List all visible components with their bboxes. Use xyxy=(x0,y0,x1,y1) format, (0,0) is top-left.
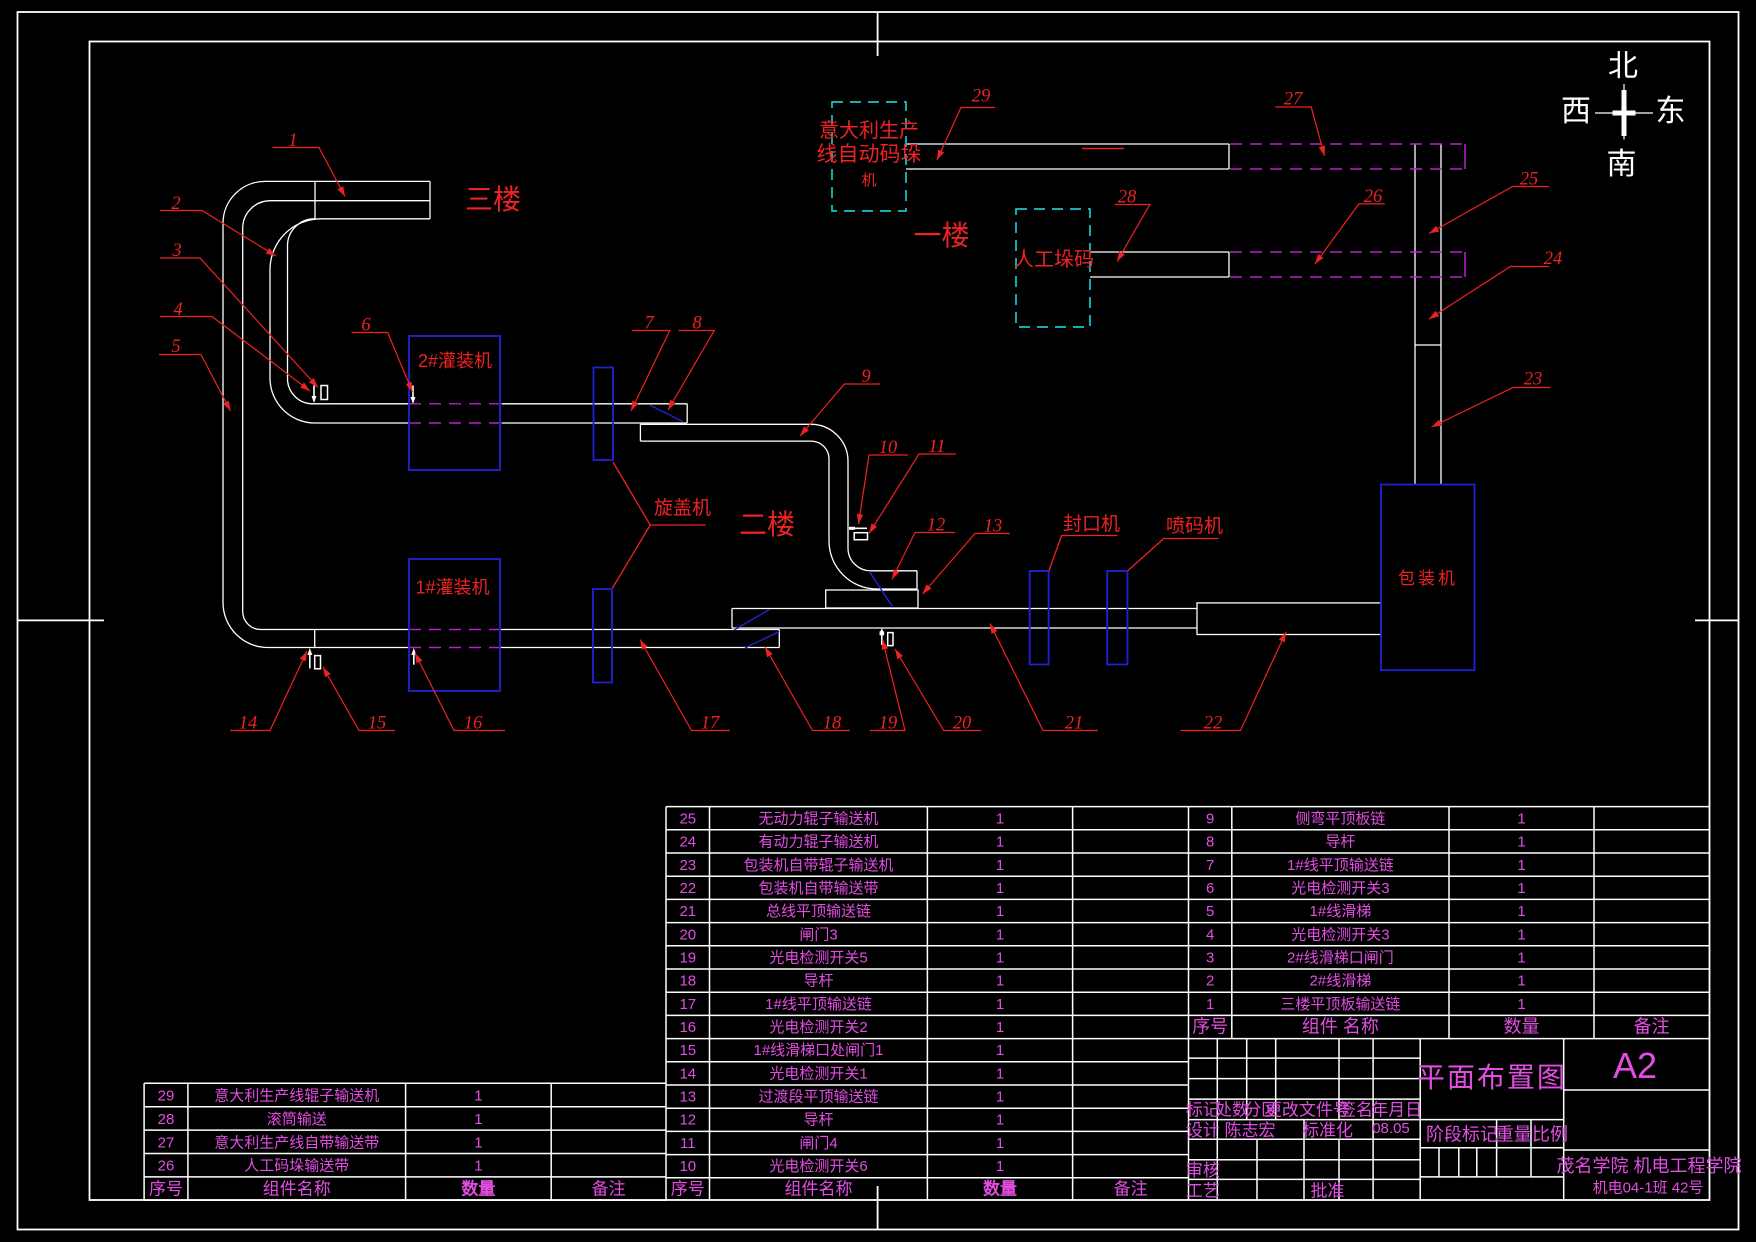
svg-text:11: 11 xyxy=(928,437,945,457)
svg-text:15: 15 xyxy=(368,714,387,734)
svg-text:18: 18 xyxy=(823,714,842,734)
svg-text:1: 1 xyxy=(474,1158,482,1175)
BOM table left grid xyxy=(144,1083,666,1200)
leader 2 xyxy=(160,211,276,257)
svg-text:包装机自带输送带: 包装机自带输送带 xyxy=(758,880,878,897)
title block revision header row xyxy=(1186,1101,1422,1120)
svg-text:工艺: 工艺 xyxy=(1186,1182,1220,1201)
svg-text:总线平顶输送链: 总线平顶输送链 xyxy=(766,903,871,920)
wire S-curve side-bend belt bottom line xyxy=(640,441,917,589)
svg-text:7: 7 xyxy=(1206,857,1214,874)
svg-text:21: 21 xyxy=(1065,714,1084,734)
svg-text:27: 27 xyxy=(1284,90,1303,110)
svg-text:机电04-1班 42号: 机电04-1班 42号 xyxy=(1593,1180,1704,1197)
svg-text:22: 22 xyxy=(679,880,696,897)
svg-text:1: 1 xyxy=(1517,903,1525,920)
svg-text:人工垛码: 人工垛码 xyxy=(1014,248,1094,271)
svg-text:平面布置图: 平面布置图 xyxy=(1417,1062,1567,1093)
leader 24 xyxy=(1429,267,1549,320)
svg-text:人工码垛输送带: 人工码垛输送带 xyxy=(244,1158,349,1175)
svg-text:导杆: 导杆 xyxy=(803,973,833,990)
svg-text:组件名称: 组件名称 xyxy=(263,1180,331,1199)
dashed conveyor through 1# filling machine xyxy=(409,629,500,631)
svg-text:1#灌装机: 1#灌装机 xyxy=(415,578,489,598)
svg-text:1#线滑梯: 1#线滑梯 xyxy=(1310,903,1372,920)
red segment inside italy belt xyxy=(1082,148,1124,150)
leader 3 xyxy=(160,258,318,388)
svg-text:29: 29 xyxy=(972,87,991,107)
dashed roller conveyor after italy belt (item 27) xyxy=(1230,143,1465,145)
svg-text:三楼: 三楼 xyxy=(465,184,521,215)
photo switch marker at 1# machine inlet (item 16) xyxy=(413,652,415,665)
wire 2#-line belt right end cap xyxy=(686,404,688,423)
svg-text:2#灌装机: 2#灌装机 xyxy=(418,351,492,371)
manual stacking belt end cap xyxy=(1228,252,1230,277)
svg-text:3: 3 xyxy=(171,241,181,261)
title block signature rows xyxy=(1186,1121,1353,1201)
svg-text:1: 1 xyxy=(996,880,1004,897)
wire 1#-line bottom belt upper edge continuation xyxy=(500,629,779,631)
capping machine upper box xyxy=(594,368,614,461)
wire third floor belt right end cap xyxy=(429,181,431,218)
svg-text:意大利生产: 意大利生产 xyxy=(819,119,919,142)
leader 25 xyxy=(1429,187,1549,234)
leader 17 xyxy=(640,640,730,731)
svg-text:1#线滑梯口处闸门1: 1#线滑梯口处闸门1 xyxy=(753,1042,883,1059)
svg-text:1: 1 xyxy=(1517,926,1525,943)
svg-text:西: 西 xyxy=(1561,95,1591,128)
svg-text:1: 1 xyxy=(996,811,1004,828)
svg-text:闸门3: 闸门3 xyxy=(799,926,837,943)
centering mark bottom xyxy=(877,1186,879,1230)
wire packer roller conveyor left line xyxy=(1414,144,1416,485)
svg-text:一楼: 一楼 xyxy=(913,220,969,251)
left BOM rows xyxy=(158,1087,483,1175)
gate diagonal on bus belt (item 11) xyxy=(734,610,770,631)
wire slide third line (L3): into 2# line belt bottom xyxy=(270,219,430,423)
svg-text:导杆: 导杆 xyxy=(803,1112,833,1129)
svg-text:22: 22 xyxy=(1204,714,1223,734)
svg-text:08.05: 08.05 xyxy=(1372,1120,1410,1137)
svg-text:6: 6 xyxy=(361,316,371,336)
wire main bus belt left end cap xyxy=(731,609,733,629)
svg-text:4: 4 xyxy=(1206,926,1214,943)
svg-text:线自动码垛: 线自动码垛 xyxy=(817,143,922,166)
svg-text:备注: 备注 xyxy=(1634,1017,1670,1037)
left BOM header xyxy=(149,1179,626,1199)
svg-text:备注: 备注 xyxy=(1114,1180,1148,1199)
leader 13 xyxy=(923,534,1011,595)
svg-text:8: 8 xyxy=(1206,834,1214,851)
wire 2#-line belt top edge continuation xyxy=(502,403,688,405)
svg-text:7: 7 xyxy=(644,314,654,334)
svg-text:2#线滑梯: 2#线滑梯 xyxy=(1310,973,1372,990)
svg-text:8: 8 xyxy=(692,314,702,334)
leader 26 xyxy=(1315,204,1385,264)
wire 1#-line bottom belt lower edge continuation after 1# filling machine xyxy=(500,647,779,649)
svg-text:3: 3 xyxy=(1206,950,1214,967)
svg-text:南: 南 xyxy=(1607,148,1637,181)
svg-text:20: 20 xyxy=(953,714,972,734)
leader 10 xyxy=(859,455,909,524)
svg-text:24: 24 xyxy=(1544,249,1563,269)
svg-text:15: 15 xyxy=(679,1042,696,1059)
BOM table middle grid xyxy=(666,807,1189,1201)
svg-text:滚筒输送: 滚筒输送 xyxy=(267,1111,327,1128)
svg-text:24: 24 xyxy=(679,834,696,851)
dashed conveyor right caps xyxy=(1464,144,1466,277)
wire 1#-line bottom belt right end cap xyxy=(778,630,780,648)
guide rod diagonal on 2# line belt xyxy=(650,405,683,421)
svg-text:21: 21 xyxy=(679,903,696,920)
svg-text:阶段标记: 阶段标记 xyxy=(1426,1125,1498,1145)
svg-text:13: 13 xyxy=(679,1089,696,1106)
svg-text:18: 18 xyxy=(679,973,696,990)
leader 5 xyxy=(159,355,231,412)
transition platform rectangle xyxy=(826,590,918,608)
wire packer roller conveyor right line xyxy=(1440,144,1442,485)
svg-text:1: 1 xyxy=(474,1111,482,1128)
svg-text:过渡段平顶输送链: 过渡段平顶输送链 xyxy=(758,1089,878,1106)
svg-text:1: 1 xyxy=(1517,857,1525,874)
manual stacking belt (item 28) top line xyxy=(1090,251,1229,253)
svg-text:1: 1 xyxy=(996,996,1004,1013)
svg-text:1: 1 xyxy=(996,1112,1004,1129)
svg-text:有动力辊子输送机: 有动力辊子输送机 xyxy=(758,834,878,851)
wire S-curve belt left end cap xyxy=(639,424,641,441)
svg-text:光电检测开关6: 光电检测开关6 xyxy=(769,1158,867,1175)
guide rod diagonal on 1# line belt (item 12) xyxy=(745,632,779,649)
leader 12 xyxy=(892,533,955,580)
leader 23 xyxy=(1432,388,1551,428)
leader 1 xyxy=(273,148,346,197)
gate marker on bus line (item 20) xyxy=(888,633,893,646)
capping machine lower box xyxy=(593,589,612,683)
svg-text:闸门4: 闸门4 xyxy=(799,1135,837,1152)
wire main bus belt top line xyxy=(732,608,1197,610)
svg-text:16: 16 xyxy=(679,1019,696,1036)
photo switch marker on bus line (item 19) xyxy=(881,632,883,645)
svg-text:设计: 设计 xyxy=(1186,1121,1220,1140)
svg-text:包装机自带辊子输送机: 包装机自带辊子输送机 xyxy=(743,857,893,874)
svg-text:A2: A2 xyxy=(1613,1045,1657,1086)
wire packer roller conveyor separator xyxy=(1415,344,1441,346)
svg-text:26: 26 xyxy=(1364,187,1383,207)
photo switch marker on vertical S section (item 10) xyxy=(849,527,867,529)
svg-text:光电检测开关3: 光电检测开关3 xyxy=(1291,926,1389,943)
svg-text:19: 19 xyxy=(879,714,898,734)
svg-text:签名: 签名 xyxy=(1339,1101,1373,1120)
svg-text:1: 1 xyxy=(996,1065,1004,1082)
svg-text:1: 1 xyxy=(996,903,1004,920)
svg-text:序号: 序号 xyxy=(149,1180,183,1199)
svg-text:1#线平顶输送链: 1#线平顶输送链 xyxy=(1287,857,1394,874)
leader 6 xyxy=(352,333,413,393)
svg-text:序号: 序号 xyxy=(1192,1017,1228,1037)
svg-text:1: 1 xyxy=(996,1135,1004,1152)
dashed roller conveyor after manual stacking belt (item 26) xyxy=(1230,251,1465,253)
svg-text:12: 12 xyxy=(927,516,946,536)
svg-text:25: 25 xyxy=(679,811,696,828)
svg-text:6: 6 xyxy=(1206,880,1214,897)
svg-text:9: 9 xyxy=(861,367,870,387)
leader 15 xyxy=(323,667,395,731)
svg-text:23: 23 xyxy=(1524,370,1543,390)
svg-text:序号: 序号 xyxy=(671,1180,705,1199)
svg-text:意大利生产线自带输送带: 意大利生产线自带输送带 xyxy=(214,1133,379,1151)
photo switch marker at 1# slide mouth (item 14) xyxy=(309,652,311,669)
svg-text:1: 1 xyxy=(996,926,1004,943)
svg-text:17: 17 xyxy=(701,714,720,734)
svg-text:13: 13 xyxy=(984,517,1003,537)
wire slide second line (L2) xyxy=(243,201,430,630)
2# filling machine box xyxy=(409,336,500,470)
svg-text:1: 1 xyxy=(996,973,1004,990)
middle BOM rows xyxy=(679,811,1004,1176)
leader 8 xyxy=(668,331,714,411)
svg-text:19: 19 xyxy=(679,950,696,967)
svg-text:5: 5 xyxy=(1206,903,1214,920)
packer infeed belt rectangle (item 22) xyxy=(1197,603,1381,635)
svg-text:10: 10 xyxy=(679,1158,696,1175)
svg-text:10: 10 xyxy=(879,438,898,458)
1# filling machine box xyxy=(409,559,500,691)
svg-text:4: 4 xyxy=(173,300,182,320)
svg-text:北: 北 xyxy=(1608,50,1638,83)
svg-text:三楼平顶板输送链: 三楼平顶板输送链 xyxy=(1280,995,1400,1013)
italy auto palletizer dashed box xyxy=(832,102,906,211)
svg-text:数量: 数量 xyxy=(1504,1017,1540,1037)
italy line roller conveyor belt bottom line xyxy=(906,168,1229,170)
leader 11 xyxy=(869,454,956,534)
svg-text:12: 12 xyxy=(679,1112,696,1129)
svg-text:审核: 审核 xyxy=(1186,1161,1220,1180)
svg-text:14: 14 xyxy=(239,714,258,734)
svg-text:1: 1 xyxy=(996,857,1004,874)
leader 16 xyxy=(415,653,505,731)
leader 29 xyxy=(937,108,995,161)
svg-text:意大利生产线辊子输送机: 意大利生产线辊子输送机 xyxy=(214,1087,379,1105)
svg-text:光电检测开关3: 光电检测开关3 xyxy=(1291,880,1389,897)
wire third floor belt divider xyxy=(314,181,316,218)
svg-text:1: 1 xyxy=(1517,811,1525,828)
manual stacking dashed box xyxy=(1016,209,1090,327)
svg-text:2#线滑梯口闸门: 2#线滑梯口闸门 xyxy=(1287,950,1394,967)
manual stacking belt bottom line xyxy=(1090,276,1229,278)
svg-text:数量: 数量 xyxy=(983,1179,1017,1199)
svg-text:1: 1 xyxy=(996,1089,1004,1106)
svg-text:1: 1 xyxy=(1517,950,1525,967)
leader 4 xyxy=(160,317,310,392)
wire main bus belt bottom line xyxy=(732,627,1197,629)
leader 9 xyxy=(800,384,880,436)
svg-text:9: 9 xyxy=(1206,811,1214,828)
svg-text:光电检测开关1: 光电检测开关1 xyxy=(769,1065,867,1082)
svg-text:26: 26 xyxy=(158,1158,175,1175)
svg-text:光电检测开关2: 光电检测开关2 xyxy=(769,1019,867,1036)
wire 1#-line bottom belt divider xyxy=(314,630,316,648)
svg-text:27: 27 xyxy=(158,1134,175,1151)
svg-text:1: 1 xyxy=(996,950,1004,967)
svg-text:年月日: 年月日 xyxy=(1371,1101,1422,1120)
svg-text:1: 1 xyxy=(1206,996,1214,1013)
svg-text:2: 2 xyxy=(1206,973,1214,990)
wire S-curve belt right end cap xyxy=(916,571,918,589)
svg-text:1: 1 xyxy=(1517,834,1525,851)
packing machine box xyxy=(1381,485,1475,671)
svg-text:1#线平顶输送链: 1#线平顶输送链 xyxy=(765,996,872,1013)
svg-text:更改文件号: 更改文件号 xyxy=(1265,1101,1350,1120)
centering mark right xyxy=(1695,619,1739,621)
svg-text:14: 14 xyxy=(679,1065,696,1082)
svg-text:11: 11 xyxy=(680,1135,696,1152)
right BOM header xyxy=(1192,1017,1669,1037)
svg-text:1: 1 xyxy=(474,1134,482,1151)
svg-text:1: 1 xyxy=(474,1088,482,1105)
guide rod diagonal in transition section xyxy=(869,571,893,608)
leader 28 xyxy=(1115,205,1150,262)
svg-text:组件名称: 组件名称 xyxy=(785,1180,853,1199)
svg-text:20: 20 xyxy=(679,926,696,943)
svg-text:茂名学院 机电工程学院: 茂名学院 机电工程学院 xyxy=(1557,1156,1742,1176)
svg-text:包装机: 包装机 xyxy=(1398,569,1458,588)
svg-text:16: 16 xyxy=(464,714,483,734)
wire slide fourth line (L4): into 2# line belt top xyxy=(288,219,410,404)
leader 7 xyxy=(631,331,670,412)
svg-text:喷码机: 喷码机 xyxy=(1166,515,1223,537)
inkjet coder box xyxy=(1107,571,1127,665)
svg-text:28: 28 xyxy=(1118,188,1137,208)
svg-text:旋盖机: 旋盖机 xyxy=(654,497,711,519)
gate marker at 1# slide mouth (item 15) xyxy=(315,656,321,669)
svg-text:1: 1 xyxy=(288,131,297,151)
title block grid xyxy=(1189,1039,1710,1201)
gate marker at 2# slide mouth (item 3) xyxy=(321,386,328,400)
svg-text:备注: 备注 xyxy=(592,1180,626,1199)
leader 20 xyxy=(895,649,981,731)
dashed conveyor through 2# filling machine xyxy=(409,144,1465,648)
leader 18 xyxy=(765,647,850,731)
svg-text:17: 17 xyxy=(679,996,696,1013)
svg-text:批准: 批准 xyxy=(1311,1182,1345,1201)
svg-text:无动力辊子输送机: 无动力辊子输送机 xyxy=(758,811,878,828)
svg-text:1: 1 xyxy=(996,1019,1004,1036)
leader 22 xyxy=(1181,632,1287,731)
leader 14 xyxy=(230,651,307,731)
svg-text:29: 29 xyxy=(158,1088,175,1105)
svg-text:陈志宏: 陈志宏 xyxy=(1225,1121,1276,1140)
wire 2#-line belt bottom edge continuation xyxy=(502,422,688,424)
BOM table right grid xyxy=(1189,807,1710,1039)
right BOM rows xyxy=(1206,810,1526,1013)
svg-text:组件 名称: 组件 名称 xyxy=(1302,1017,1379,1037)
italy line roller conveyor belt (item 29) top line xyxy=(906,143,1229,145)
svg-text:1: 1 xyxy=(1517,880,1525,897)
svg-text:二楼: 二楼 xyxy=(739,509,795,540)
wire 2#-line slide outer (L1): third floor belt top edge, bend down, vertical, bend right into 1# line bottom xyxy=(223,181,430,647)
svg-text:数量: 数量 xyxy=(461,1179,495,1199)
gate marker on vertical S section (item 11) xyxy=(854,533,867,540)
middle BOM header xyxy=(671,1179,1148,1199)
svg-text:28: 28 xyxy=(158,1111,175,1128)
centering mark left xyxy=(18,619,105,621)
leader 21 xyxy=(990,624,1098,731)
svg-text:1: 1 xyxy=(1517,973,1525,990)
svg-text:侧弯平顶板链: 侧弯平顶板链 xyxy=(1295,810,1385,828)
svg-text:1: 1 xyxy=(996,1042,1004,1059)
centering mark top xyxy=(877,12,879,56)
svg-text:比例: 比例 xyxy=(1532,1125,1568,1145)
svg-text:重量: 重量 xyxy=(1496,1125,1532,1145)
svg-text:标准化: 标准化 xyxy=(1302,1121,1353,1140)
leader 19 xyxy=(870,640,905,731)
title block stage row xyxy=(1426,1125,1568,1145)
svg-text:导杆: 导杆 xyxy=(1325,834,1355,851)
sealing machine box xyxy=(1030,571,1049,665)
svg-text:1: 1 xyxy=(1517,996,1525,1013)
photo switch marker above 2# slide mouth (item 4) xyxy=(313,386,315,402)
svg-text:2: 2 xyxy=(171,194,180,214)
leader 27 xyxy=(1275,107,1324,156)
svg-text:光电检测开关5: 光电检测开关5 xyxy=(769,950,867,967)
svg-text:25: 25 xyxy=(1520,170,1539,190)
svg-text:1: 1 xyxy=(996,834,1004,851)
wire S-curve side-bend belt top line xyxy=(640,424,917,571)
photo switch marker at 2# machine inlet (item 6) xyxy=(412,386,414,403)
svg-text:封口机: 封口机 xyxy=(1063,513,1120,535)
svg-text:1: 1 xyxy=(996,1158,1004,1175)
svg-text:5: 5 xyxy=(171,337,180,357)
svg-text:23: 23 xyxy=(679,857,696,874)
italy line roller conveyor belt end cap xyxy=(1228,144,1230,169)
svg-text:机: 机 xyxy=(861,172,876,189)
svg-text:东: 东 xyxy=(1656,95,1686,128)
compass cross xyxy=(1595,84,1653,140)
